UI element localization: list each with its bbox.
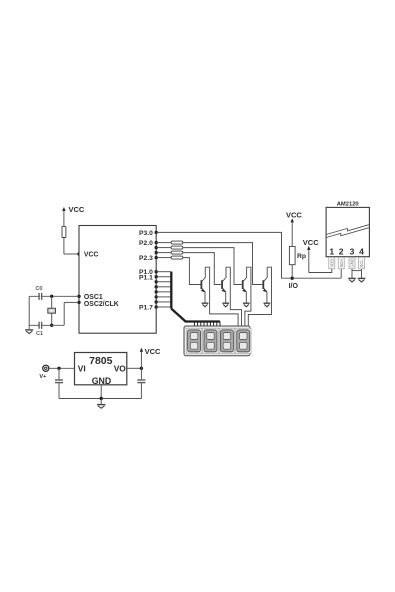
ground (emitter Q1) <box>202 303 209 307</box>
svg-text:VCC: VCC <box>286 211 302 220</box>
wire P3.0 to I/O <box>156 232 292 278</box>
svg-text:C0: C0 <box>35 286 42 292</box>
power VCC (top-left) <box>62 205 85 226</box>
svg-text:VDD: VDD <box>329 259 334 268</box>
wire GND-SCL tie <box>352 270 362 272</box>
capacitor C2 (input) <box>55 368 63 398</box>
svg-text:P1.7: P1.7 <box>139 304 153 311</box>
svg-text:P2.0: P2.0 <box>139 240 153 247</box>
svg-text:7805: 7805 <box>89 355 113 367</box>
wire P2.0 lead <box>156 242 171 244</box>
bus P1 to display <box>171 272 220 322</box>
wire V+ to VI <box>49 367 75 369</box>
svg-text:Rp: Rp <box>297 253 306 260</box>
power VCC (5V rail) <box>140 347 161 368</box>
svg-text:GND: GND <box>350 258 355 268</box>
resistor Rp <box>289 246 306 264</box>
capacitor C0 <box>35 286 42 300</box>
svg-text:VCC: VCC <box>84 252 99 259</box>
node P2.0 pin <box>155 241 158 244</box>
svg-text:VCC: VCC <box>69 205 85 214</box>
svg-text:SCL: SCL <box>359 259 364 268</box>
wire ground rail left <box>28 296 30 329</box>
wire P2.1 lead <box>156 247 171 249</box>
node OSC1 pin <box>77 295 80 298</box>
sensor pin labels VDD SDA GND SCL <box>329 257 365 269</box>
transistor Q2 <box>221 267 241 326</box>
wire I/O to SDA <box>292 277 341 279</box>
svg-text:C1: C1 <box>36 331 43 337</box>
wire R3 to Q3 base <box>183 248 242 285</box>
terminal V+ input <box>39 365 49 380</box>
svg-text:VO: VO <box>114 364 127 374</box>
node crystal bottom <box>50 324 53 327</box>
resistor R3 <box>171 246 183 249</box>
node P1 pins and stub wires <box>155 270 172 309</box>
svg-text:VCC: VCC <box>303 238 319 247</box>
svg-text:GND: GND <box>92 376 112 386</box>
node P2.2 pin <box>155 251 158 254</box>
wire SDA pin 2 <box>340 257 342 279</box>
wire R4 to Q2 base <box>183 253 221 285</box>
node ground rail junction <box>100 397 103 400</box>
svg-text:AM2120: AM2120 <box>337 202 359 208</box>
regulator U3 7805 <box>75 353 127 387</box>
ground (emitter Q2) <box>222 303 229 307</box>
resistor R1 (VCC series) <box>62 226 66 237</box>
svg-text:3: 3 <box>350 247 355 257</box>
wire VDD pin 1 <box>309 257 332 273</box>
ground (7805) <box>97 399 105 409</box>
ground (emitter Q4) <box>264 303 271 307</box>
svg-text:VI: VI <box>78 364 86 374</box>
svg-text:P3.0: P3.0 <box>139 230 153 237</box>
svg-text:P2.3: P2.3 <box>139 255 153 262</box>
ground (crystal) <box>25 330 33 334</box>
resistor R2 <box>171 241 183 244</box>
svg-text:2: 2 <box>339 247 344 257</box>
ground (sensor pin 4) <box>358 278 366 282</box>
node C3 junction <box>140 367 143 370</box>
svg-text:I/O: I/O <box>289 283 299 290</box>
wire Rp to I/O <box>291 265 293 279</box>
svg-text:4: 4 <box>359 247 364 257</box>
wire P2.2 lead <box>156 252 171 254</box>
wire SCL pin 4 <box>361 257 363 278</box>
wire GND pin 3 <box>351 257 353 278</box>
display segment pins <box>194 322 220 327</box>
svg-text:1: 1 <box>329 247 334 257</box>
wire P2.3 lead <box>156 257 171 259</box>
capacitor C3 (output) <box>137 368 145 398</box>
transistor Q3 <box>242 267 251 326</box>
node I/O <box>289 277 299 290</box>
svg-text:P1.1: P1.1 <box>139 275 153 282</box>
node VCC pin junction <box>77 252 80 255</box>
node C2 junction <box>57 367 60 370</box>
transistor Q4 <box>248 267 271 326</box>
wire R5 to Q1 base <box>183 258 201 285</box>
wire GND pin drop <box>100 385 102 399</box>
wire R2 to Q4 base <box>183 243 263 285</box>
ground (emitter Q3) <box>243 303 250 307</box>
resistor R5 <box>171 256 183 259</box>
display DS1 (4-digit 7-segment) <box>184 326 251 356</box>
node P2.1 pin <box>155 246 158 249</box>
svg-text:VCC: VCC <box>145 347 161 356</box>
svg-text:SDA: SDA <box>339 259 344 268</box>
wire R1 to VCC pin <box>64 238 79 255</box>
wire ground rail (7805) <box>59 398 141 400</box>
wire OSC2 net <box>29 302 79 325</box>
node OSC2 pin <box>77 301 80 304</box>
transistor Q1 <box>201 267 239 326</box>
power VCC (sensor VDD) <box>303 238 319 272</box>
power VCC (Rp pullup) <box>286 211 302 247</box>
svg-text:OSC2/CLK: OSC2/CLK <box>84 301 119 308</box>
svg-text:V+: V+ <box>39 374 47 380</box>
microcontroller U1 <box>79 226 156 334</box>
ground (sensor pin 3) <box>348 278 356 282</box>
humidity sensor U2 AM2120 <box>326 202 369 257</box>
capacitor C1 <box>36 322 43 337</box>
wire OSC1 net <box>29 295 79 297</box>
resistor R4 <box>171 251 183 254</box>
node P3.0 pin <box>155 231 158 234</box>
node P2.3 pin <box>155 256 158 259</box>
node crystal top <box>50 295 53 298</box>
crystal Y1 <box>48 296 56 325</box>
wire VO to VCC <box>127 367 142 369</box>
